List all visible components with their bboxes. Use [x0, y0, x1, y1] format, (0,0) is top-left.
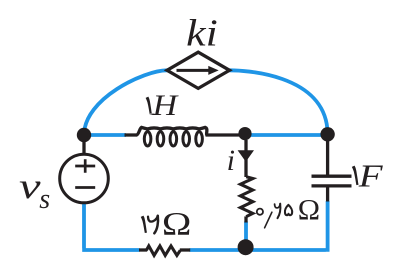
svg-text:Ω: Ω	[162, 207, 192, 243]
svg-text:v: v	[19, 166, 41, 206]
svg-text:i: i	[227, 144, 235, 177]
svg-text:F: F	[358, 158, 384, 194]
svg-text:H: H	[151, 89, 179, 122]
svg-text:s: s	[39, 184, 50, 215]
svg-text:Ω: Ω	[298, 193, 320, 226]
svg-text:ki: ki	[186, 12, 218, 54]
